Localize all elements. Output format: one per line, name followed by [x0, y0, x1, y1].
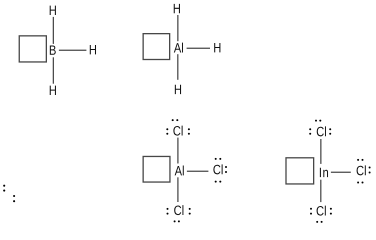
- atom Al of AlH3: [174, 43, 183, 53]
- stray lone pair colon 2 (bottom left): [13, 195, 15, 197]
- empty-orbital box of InCl3: [286, 158, 314, 184]
- wire In-Cl top bond: [320, 139, 322, 164]
- atom Cl (right of AlCl3): [213, 164, 222, 174]
- lone pair colon right of top Cl of InCl3: [329, 128, 331, 130]
- lone pair dots above top Cl of AlCl3: [172, 119, 174, 121]
- atom H (top of BH3): [50, 6, 56, 15]
- lone pair colon right of right Cl of AlCl3: [225, 166, 227, 168]
- lone pair dots above right Cl of AlCl3: [215, 158, 217, 160]
- lone pair dots above right Cl of InCl3: [357, 159, 359, 161]
- lone pair colon right of bottom Cl of InCl3: [330, 208, 332, 210]
- lone pair colon right of right Cl of InCl3: [369, 167, 371, 169]
- atom B: [50, 45, 56, 54]
- wire B-H top bond: [52, 17, 54, 44]
- lone pair colon left of bottom Cl of InCl3: [310, 208, 312, 210]
- lone pair colon left of top Cl of InCl3: [309, 128, 311, 130]
- atom Cl (bottom of InCl3): [317, 206, 326, 216]
- lone pair dots above top Cl of InCl3: [315, 120, 317, 122]
- empty-orbital box of AlH3: [143, 34, 170, 60]
- lone pair colon right of bottom Cl of AlCl3: [189, 208, 191, 210]
- lone pair dots below right Cl of AlCl3: [215, 181, 217, 183]
- wire Al-Cl bottom bond: [177, 177, 179, 202]
- empty-orbital box of AlCl3: [143, 156, 170, 182]
- atom H (bottom of BH3): [50, 86, 56, 95]
- lone pair dots below bottom Cl of AlCl3: [174, 220, 176, 222]
- atom H (top of AlH3): [174, 4, 180, 13]
- empty-orbital box of BH3: [19, 36, 46, 62]
- atom Cl (top of InCl3): [317, 126, 326, 136]
- atom H (bottom of AlH3): [175, 85, 181, 94]
- wire Al-H top bond: [177, 15, 179, 41]
- atom Cl (bottom of AlCl3): [174, 205, 183, 215]
- atom H (right of BH3): [90, 45, 96, 54]
- atom Cl (right of InCl3): [357, 165, 366, 175]
- atom H (right of AlH3): [214, 43, 220, 52]
- atom Al of AlCl3: [175, 166, 184, 176]
- wire Al-H bottom bond: [177, 54, 179, 80]
- wire In-Cl right bond: [331, 171, 351, 173]
- wire In-Cl bottom bond: [320, 180, 322, 202]
- stray lone pair colon 1 (bottom left): [3, 185, 5, 187]
- atom Cl (top of AlCl3): [173, 126, 182, 136]
- wire Al-H right bond: [187, 47, 210, 49]
- lone pair dots below bottom Cl of InCl3: [316, 221, 318, 223]
- wire Al-Cl top bond: [177, 138, 179, 164]
- lone pair colon left of bottom Cl of AlCl3: [167, 208, 169, 210]
- lone pair dots below right Cl of InCl3: [357, 182, 359, 184]
- wire B-H right bond: [59, 49, 87, 51]
- wire Al-Cl right bond: [187, 170, 209, 172]
- lone pair colon left of top Cl of AlCl3: [166, 128, 168, 130]
- atom In: [320, 168, 328, 177]
- lone pair colon right of top Cl of AlCl3: [188, 128, 190, 130]
- wire B-H bottom bond: [52, 57, 54, 83]
